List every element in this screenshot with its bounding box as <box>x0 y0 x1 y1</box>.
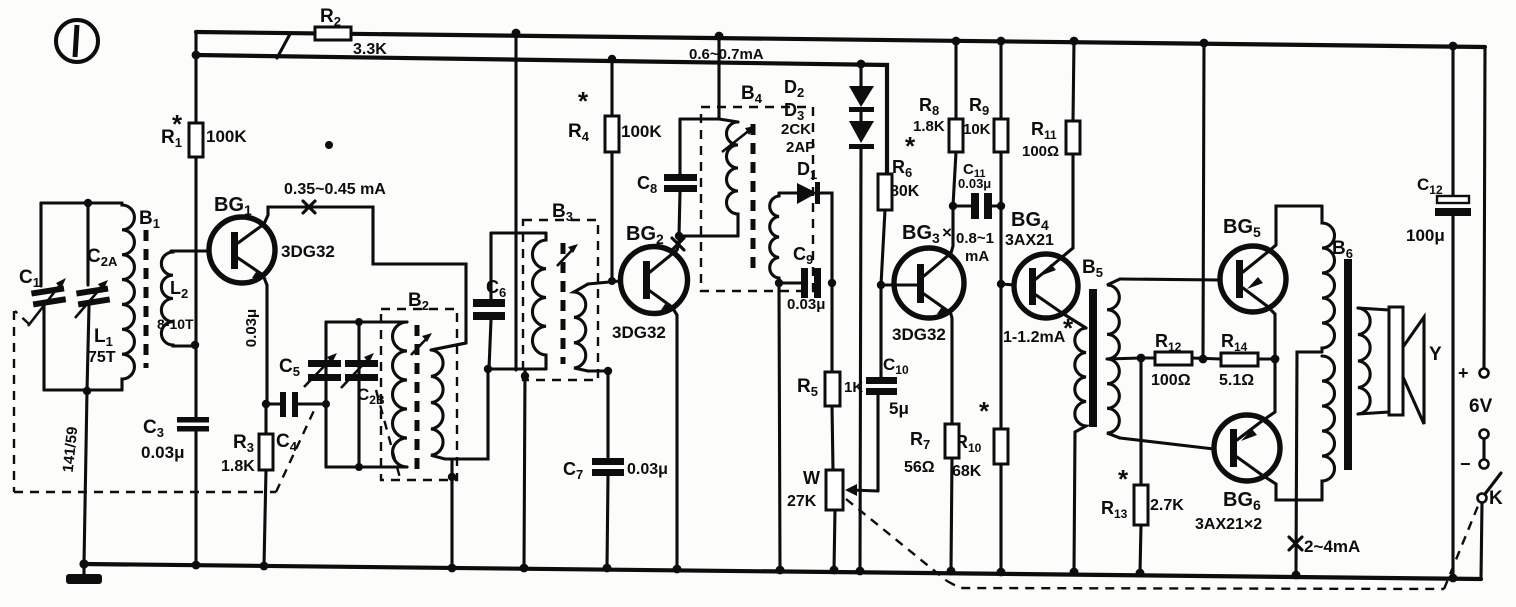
transistor BG6 <box>1214 415 1280 481</box>
wire: switch to ground rail <box>1481 503 1482 579</box>
transformer B5 primary winding <box>1074 328 1086 572</box>
svg-text:10K: 10K <box>963 121 991 138</box>
transformer B2 secondary winding <box>431 343 488 459</box>
svg-text:8-10T: 8-10T <box>157 316 194 332</box>
svg-text:68K: 68K <box>952 463 982 480</box>
svg-text:1.8K: 1.8K <box>913 118 945 135</box>
wire: tank to ground rail <box>84 391 87 564</box>
resistor R2 <box>315 27 351 40</box>
node: R4 to base wire <box>608 277 616 285</box>
wire: R1 to base node, L2 bottom, C3 <box>194 157 197 417</box>
node: center tap bias junction <box>1137 354 1146 363</box>
wire: bottom ground rail <box>84 564 1481 579</box>
wire: BG1 emitter down <box>263 275 267 404</box>
wire: C8 top to B4 primary top <box>680 119 738 122</box>
transformer B6 primary upper <box>1322 206 1334 350</box>
dashed gang linkage left <box>14 311 317 492</box>
wire: BG1 base lead <box>171 249 210 252</box>
capacitor C9 <box>779 268 821 298</box>
transformer B4 core <box>751 124 756 270</box>
wire: top supply rail 1 <box>196 32 1485 47</box>
battery terminal minus <box>1480 460 1489 469</box>
wire: antenna tank top <box>41 201 122 204</box>
node: rail1 R8 <box>952 37 961 46</box>
svg-text:27K: 27K <box>787 493 817 510</box>
wire: decoupled rail 2 (to R6 top) <box>196 55 887 174</box>
node: rail1 x719 <box>715 32 724 41</box>
resistor R5 <box>825 283 840 470</box>
svg-text:0.03μ: 0.03μ <box>958 176 991 191</box>
node: C2B top <box>355 318 363 326</box>
wire: rail1 to B4 primary (0.6-0.7mA feed) <box>717 36 720 119</box>
dashed linkage W to K <box>846 499 1480 589</box>
svg-text:*: * <box>1118 464 1129 494</box>
wire: bus to ground rail x525 <box>524 370 525 568</box>
svg-text:3DG32: 3DG32 <box>612 323 666 342</box>
transformer B3 primary winding <box>532 233 546 369</box>
node: C9/R5 junction <box>828 279 836 287</box>
svg-text:2AP: 2AP <box>786 139 815 156</box>
resistor R14 <box>1221 353 1275 366</box>
ground <box>66 564 102 584</box>
wire: B2 secondary bottom to ground rail <box>450 459 453 568</box>
svg-text:3AX21×2: 3AX21×2 <box>1195 516 1262 533</box>
svg-text:5μ: 5μ <box>889 399 909 418</box>
resistor R7 <box>945 311 959 571</box>
resistor R6 <box>878 174 892 285</box>
battery terminal plus <box>1480 369 1489 378</box>
wire: detector return to ground <box>779 283 780 570</box>
svg-text:100Ω: 100Ω <box>1151 372 1191 389</box>
transformer B6 primary lower <box>1322 356 1334 500</box>
wire: x196 line (rail2 to R1) <box>194 55 197 123</box>
svg-text:6V: 6V <box>1469 396 1493 417</box>
svg-text:100K: 100K <box>206 127 247 146</box>
svg-text:+: + <box>1458 363 1469 383</box>
node: rail1 C12 <box>1449 42 1458 51</box>
capacitor C8 <box>664 119 697 236</box>
transformer B4 primary winding <box>727 122 739 236</box>
resistor R9 <box>994 41 1008 206</box>
resistor R8 <box>949 41 963 206</box>
svg-text:0.6~0.7mA: 0.6~0.7mA <box>689 46 764 63</box>
transformer B4 tuning arrow <box>722 126 755 152</box>
wire: B5 center tap to R12 <box>1107 358 1141 359</box>
wire: B5 secondary top to BG5 base <box>1120 279 1220 280</box>
node: C11/R9 junction <box>997 202 1005 210</box>
node: C4 to oscillator block <box>322 400 330 408</box>
svg-text:0.03μ: 0.03μ <box>627 461 668 478</box>
node: rail2 R4 <box>608 55 616 63</box>
transistor BG5 <box>1220 246 1286 312</box>
node: tank top junction <box>84 199 92 207</box>
wire: secondary to speaker <box>1358 308 1389 310</box>
transistor BG2 <box>621 247 688 314</box>
svg-text:100Ω: 100Ω <box>1022 143 1059 160</box>
wire: BG4 collector to B5 primary <box>1062 313 1086 328</box>
resistor R13 <box>1134 358 1148 573</box>
svg-text:W: W <box>803 468 820 488</box>
diode D3 <box>849 112 874 571</box>
svg-text:3AX21: 3AX21 <box>1005 232 1054 249</box>
svg-text:*: * <box>979 396 990 426</box>
transformer B5 core <box>1089 289 1097 427</box>
node: R8/C11/collector junction <box>949 202 957 210</box>
transformer B6 secondary winding <box>1358 308 1370 414</box>
node: C2B bottom <box>355 463 363 471</box>
wire: left corner rail1 to rail2 <box>194 32 197 55</box>
capacitor C2B (gang section B) <box>341 353 378 388</box>
svg-text:0.8~1: 0.8~1 <box>956 230 994 247</box>
node: rail1 x1204 <box>1200 39 1209 48</box>
resistor R1 <box>189 123 203 157</box>
battery terminal mid <box>1480 430 1489 439</box>
wire: BG2 emitter to ground <box>672 307 677 569</box>
node: emitter/C4/R3 junction <box>262 400 270 408</box>
capacitor C10 <box>866 285 897 491</box>
transformer B3 secondary winding <box>574 284 588 371</box>
diode D2 <box>849 64 874 112</box>
capacitor C3 <box>177 417 209 565</box>
svg-text:×: × <box>942 223 952 242</box>
svg-text:0.35~0.45 mA: 0.35~0.45 mA <box>284 181 386 198</box>
svg-text:*: * <box>578 86 589 116</box>
capacitor C11 <box>953 193 1001 219</box>
wire: antenna tank bottom <box>44 388 122 391</box>
svg-text:100K: 100K <box>621 122 662 141</box>
svg-text:2~4mA: 2~4mA <box>1304 537 1360 556</box>
capacitor C6 <box>473 233 505 369</box>
node: rail2 left junction <box>192 51 201 60</box>
svg-text:K: K <box>1489 488 1503 509</box>
wire: BG5 collector to B6 top <box>1269 206 1322 251</box>
transistor BG3 <box>881 248 964 318</box>
wire: rail1 drop to R12/R14 node <box>1203 43 1204 359</box>
svg-text:75T: 75T <box>88 349 116 366</box>
transformer B2 primary winding <box>393 322 408 467</box>
node: C7 top junction <box>604 367 612 375</box>
node: collector C8 junction <box>675 232 683 240</box>
svg-text:3.3K: 3.3K <box>353 41 387 58</box>
svg-text:5.1Ω: 5.1Ω <box>1219 372 1254 389</box>
resistor R12 <box>1141 352 1221 365</box>
potentiometer W volume <box>826 470 878 570</box>
svg-text:−: − <box>1460 454 1471 474</box>
wire: rail1 drop at x516 <box>514 33 517 370</box>
capacitor C1 (trimmer) <box>28 203 66 390</box>
svg-text:56Ω: 56Ω <box>904 459 935 476</box>
diode D1 2AP <box>779 182 832 283</box>
node: tank bottom junction <box>83 387 91 395</box>
svg-text:0.03μ: 0.03μ <box>243 309 260 347</box>
wire: BG6 emitter up to R14 node <box>1262 359 1275 421</box>
wire: rail1 right corner to battery <box>1484 47 1485 367</box>
node: emitters junction <box>1271 355 1280 364</box>
node: BG3 base junction <box>877 281 885 289</box>
x mark BG1 collector current <box>303 201 315 213</box>
transformer B4 secondary winding <box>770 193 779 283</box>
resistor R10 <box>994 284 1008 572</box>
svg-text:1-1.2mA: 1-1.2mA <box>1003 329 1066 346</box>
wire: BG3 collector up <box>951 206 953 253</box>
transformer B3 core <box>561 243 566 364</box>
svg-text:3DG32: 3DG32 <box>892 325 946 344</box>
node: R12/R14 junction <box>1199 355 1208 364</box>
svg-text:80K: 80K <box>890 183 920 200</box>
x mark BG2 collector <box>672 238 684 250</box>
transistor BG1 <box>209 217 275 283</box>
svg-text:1.8K: 1.8K <box>221 458 255 475</box>
transformer B4 box <box>701 107 813 291</box>
wire: BG2 collector up and to B4 primary bottom <box>677 236 738 250</box>
wire: battery link <box>1482 439 1485 459</box>
transformer B5 secondary winding <box>1107 279 1120 438</box>
transformer B2 box <box>381 309 457 480</box>
wire: BG5 emitter down to R14 node <box>1267 306 1275 359</box>
inductor L1 75T <box>122 203 134 390</box>
resistor R3 <box>259 404 273 566</box>
node: rail1 R9 <box>997 37 1006 46</box>
svg-text:2.7K: 2.7K <box>1150 497 1184 514</box>
switch K lever <box>1485 473 1501 494</box>
node: bus dot <box>521 372 529 380</box>
resistor R11 <box>1061 41 1080 258</box>
svg-text:0.03μ: 0.03μ <box>787 296 825 313</box>
node: C6 bottom junction <box>484 365 492 373</box>
transformer B2 core <box>415 325 420 470</box>
svg-text:mA: mA <box>965 248 989 265</box>
wire: B5 secondary bottom to BG6 base <box>1120 438 1214 449</box>
svg-text:100μ: 100μ <box>1406 226 1445 245</box>
dashed linkage to B2 <box>376 390 400 478</box>
transformer B3 box <box>523 220 598 380</box>
svg-text:0.03μ: 0.03μ <box>141 443 185 462</box>
transformer B6 core <box>1344 259 1352 470</box>
node: B2 ground wire dot <box>448 473 456 481</box>
capacitor C5 (padder) <box>304 353 341 387</box>
svg-text:3DG32: 3DG32 <box>281 242 335 261</box>
wire: B6 center tap to ground rail <box>1296 352 1322 571</box>
capacitor C4 <box>266 392 326 417</box>
transistor BG4 <box>1001 254 1078 318</box>
oscillator cap block rails <box>326 322 407 467</box>
wire: C6 bottom bus <box>488 367 546 370</box>
node: ground rail C12 <box>1449 574 1458 583</box>
node: BG4 base junction <box>997 280 1005 288</box>
resistor R4 <box>605 59 619 282</box>
transformer core B1 (ferrite rod) <box>144 230 149 368</box>
wire: B3 secondary bottom to C7 <box>588 369 608 372</box>
switch K pivot <box>1478 494 1487 503</box>
speaker Y <box>1389 307 1424 424</box>
capacitor C2A (gang section A) <box>75 203 110 391</box>
wire: BG1 collector path to B2 secondary <box>264 207 466 350</box>
wire: BG6 collector to B6 bottom <box>1262 475 1322 500</box>
wire: B3 secondary top to BG2 base <box>588 281 620 284</box>
node: L2 bottom junction <box>191 341 199 349</box>
transformer B3 tuning arrow <box>557 244 578 266</box>
node: rail1 R11 <box>1070 37 1079 46</box>
node: B4 secondary bottom <box>775 279 783 287</box>
wire: slant link rail2 to rail1 <box>277 34 290 58</box>
wire: R9 line down to BG4 base <box>999 206 1002 284</box>
wire: C6 top to B3 primary <box>491 231 546 234</box>
svg-text:*: * <box>905 131 916 161</box>
node: rail1 x516 <box>512 29 521 38</box>
capacitor C7 <box>592 371 624 568</box>
svg-text:2CK: 2CK <box>781 121 811 138</box>
inductor L2 8-10T <box>161 251 196 346</box>
x mark output current <box>1289 537 1302 550</box>
stray mark <box>325 141 333 149</box>
figure number circle 1 logo <box>56 20 98 62</box>
node: rail2 diode chain <box>857 60 866 69</box>
capacitor C12 <box>1435 46 1471 578</box>
transformer B2 tuning arrow <box>411 333 432 355</box>
node: ground rail dots <box>79 559 1300 579</box>
svg-text:Y: Y <box>1429 344 1442 365</box>
